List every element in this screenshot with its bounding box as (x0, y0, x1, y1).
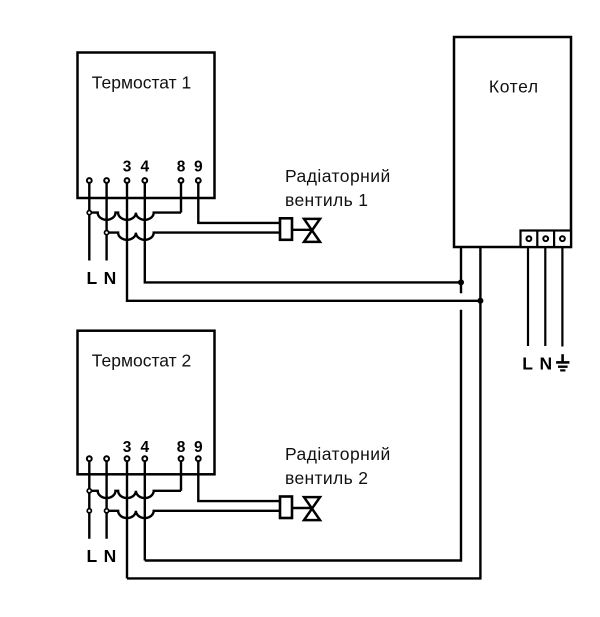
svg-text:3: 3 (123, 158, 132, 175)
boiler terminal circle N (543, 236, 548, 241)
svg-text:N: N (104, 268, 117, 288)
svg-text:Котел: Котел (489, 76, 539, 96)
wire terminal 4 T2 vertical (144, 459, 146, 561)
terminal N T1 (104, 178, 109, 183)
wire L T1 vertical (88, 181, 90, 261)
valve Y1 stem (292, 229, 312, 231)
thermostat box T1 (78, 53, 215, 199)
boiler box (Котел) (454, 37, 571, 247)
svg-text:L: L (522, 353, 533, 373)
valve Y2 stem (292, 507, 312, 509)
svg-text:N: N (539, 353, 552, 373)
boiler terminal circle L (527, 236, 532, 241)
wire terminal 3 T1 vertical then horizontal to node B (127, 181, 480, 301)
svg-text:Термостат 2: Термостат 2 (92, 351, 191, 371)
terminal 8 T2 (179, 456, 184, 461)
jumper wire N to valve Y1 lower with hops (107, 233, 280, 240)
terminal 3 T1 (125, 178, 130, 183)
wire N T1 vertical (105, 181, 107, 261)
wire terminal 8 T2 vertical (180, 459, 182, 491)
junction circle on wire N T2 (105, 509, 109, 513)
valve Y2 body (hourglass) (304, 497, 320, 520)
terminal 8 T1 (179, 178, 184, 183)
svg-text:8: 8 (177, 439, 186, 456)
wire terminal 9 T1 to valve Y1 upper (198, 181, 280, 223)
boiler mains wire L (527, 247, 529, 346)
thermostat box T2 (78, 331, 215, 475)
valve Y2 actuator body (280, 497, 292, 519)
boiler mains terminal block (521, 231, 572, 248)
junction circle on wire L T2 (87, 489, 91, 493)
terminal 3 T2 (125, 456, 130, 461)
terminal N T2 (104, 456, 109, 461)
wire L T2 vertical (88, 459, 90, 539)
svg-text:3: 3 (123, 439, 132, 456)
valve Y1 actuator body (280, 218, 292, 240)
jumper wire L to terminal 8 (T2) with hops (89, 491, 181, 498)
wire terminal 4 T1 vertical then horizontal to node A (145, 181, 461, 283)
boiler mains wire N (544, 247, 546, 346)
ground symbol (556, 354, 569, 370)
lone ring on wire L T2 (87, 509, 91, 513)
terminal L T2 (87, 456, 92, 461)
svg-text:9: 9 (194, 158, 203, 175)
svg-text:N: N (104, 546, 117, 566)
wire terminal 9 T2 to valve Y2 upper (198, 459, 280, 501)
boiler wire node A vertical (lower part) to T2 wire 4 (145, 310, 461, 561)
svg-text:L: L (86, 268, 97, 288)
svg-text:Термостат 1: Термостат 1 (92, 73, 191, 93)
boiler wire node A vertical (upper part with break) (460, 247, 462, 293)
terminal 4 T1 (142, 178, 147, 183)
terminal 9 T1 (196, 178, 201, 183)
terminal 9 T2 (196, 456, 201, 461)
jumper wire L to terminal 8 (T1) with hops (89, 213, 181, 220)
junction dot node B (477, 298, 483, 304)
junction dot node A (458, 279, 464, 285)
svg-text:Радіаторний: Радіаторний (285, 444, 391, 464)
svg-text:вентиль 1: вентиль 1 (285, 190, 368, 210)
svg-text:9: 9 (194, 439, 203, 456)
svg-text:L: L (86, 546, 97, 566)
junction circle on wire L T1 (87, 211, 91, 215)
jumper wire N to valve Y2 lower with hops (107, 511, 280, 518)
svg-text:4: 4 (140, 439, 149, 456)
svg-text:Радіаторний: Радіаторний (285, 166, 391, 186)
terminal L T1 (87, 178, 92, 183)
wire N T2 vertical (105, 459, 107, 539)
valve Y1 body (hourglass) (304, 219, 320, 242)
junction circle on wire N T1 (105, 231, 109, 235)
wire terminal 3 T2 vertical (126, 459, 128, 579)
svg-text:8: 8 (177, 158, 186, 175)
svg-text:4: 4 (140, 158, 149, 175)
boiler mains wire PE (561, 247, 563, 347)
svg-text:вентиль 2: вентиль 2 (285, 468, 368, 488)
boiler terminal circle PE (560, 236, 565, 241)
wire terminal 8 T1 vertical (180, 181, 182, 213)
boiler wire node B vertical to T2 wire 3 (127, 247, 480, 578)
terminal 4 T2 (142, 456, 147, 461)
